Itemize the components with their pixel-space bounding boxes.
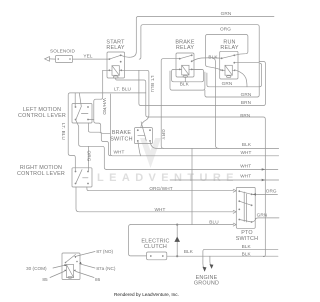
- svg-text:SWITCH: SWITCH: [236, 236, 258, 242]
- svg-text:ORG: ORG: [220, 26, 231, 31]
- svg-text:GRN: GRN: [257, 212, 268, 217]
- svg-text:YEL: YEL: [83, 54, 92, 59]
- svg-text:CONTROL LEVER: CONTROL LEVER: [18, 113, 66, 119]
- svg-text:86: 86: [95, 277, 101, 282]
- svg-text:BRN: BRN: [241, 100, 251, 105]
- svg-text:BLK: BLK: [180, 81, 190, 86]
- svg-text:GRN: GRN: [222, 81, 233, 86]
- svg-text:85: 85: [42, 277, 48, 282]
- svg-text:WHT: WHT: [241, 150, 252, 155]
- svg-text:GRN: GRN: [221, 11, 232, 16]
- svg-text:WH/RD: WH/RD: [102, 98, 107, 115]
- svg-text:BRN: BRN: [240, 113, 250, 118]
- svg-text:RELAY: RELAY: [106, 45, 124, 51]
- svg-text:GRY: GRY: [161, 129, 166, 140]
- svg-text:BRAKE: BRAKE: [112, 130, 131, 136]
- svg-text:87 (NO): 87 (NO): [96, 249, 113, 254]
- svg-text:BLK: BLK: [242, 142, 252, 147]
- svg-text:SOLENOID: SOLENOID: [50, 49, 76, 54]
- svg-text:BLK: BLK: [242, 244, 252, 249]
- svg-text:Rendered by LeadVenture, Inc.: Rendered by LeadVenture, Inc.: [114, 292, 179, 297]
- svg-text:ORG/WHT: ORG/WHT: [149, 186, 172, 191]
- svg-text:BLK: BLK: [184, 249, 194, 254]
- svg-text:LT. BLU: LT. BLU: [61, 123, 66, 141]
- svg-text:SWITCH: SWITCH: [110, 137, 132, 143]
- svg-text:LEADVENTURE: LEADVENTURE: [97, 172, 239, 184]
- svg-text:GRN: GRN: [241, 92, 252, 97]
- svg-text:WHT: WHT: [114, 150, 125, 155]
- svg-text:WHT: WHT: [155, 207, 166, 212]
- svg-text:WHT: WHT: [240, 163, 251, 168]
- svg-text:ORG: ORG: [266, 188, 277, 193]
- svg-text:ORG: ORG: [87, 151, 92, 162]
- svg-text:WHT: WHT: [240, 174, 251, 179]
- svg-text:CLUTCH: CLUTCH: [144, 244, 167, 250]
- svg-text:87a (NC): 87a (NC): [96, 266, 115, 271]
- svg-text:CONTROL LEVER: CONTROL LEVER: [17, 171, 65, 177]
- svg-text:RELAY: RELAY: [176, 45, 194, 51]
- svg-text:BLK: BLK: [208, 54, 218, 59]
- svg-text:LT. BLU: LT. BLU: [114, 87, 132, 92]
- svg-text:GROUND: GROUND: [194, 281, 219, 287]
- svg-text:LT. BLU: LT. BLU: [150, 76, 155, 94]
- svg-text:BLU: BLU: [209, 220, 219, 225]
- svg-text:BLK: BLK: [242, 252, 252, 257]
- svg-text:RELAY: RELAY: [220, 45, 238, 51]
- svg-text:30 (COM): 30 (COM): [26, 266, 47, 271]
